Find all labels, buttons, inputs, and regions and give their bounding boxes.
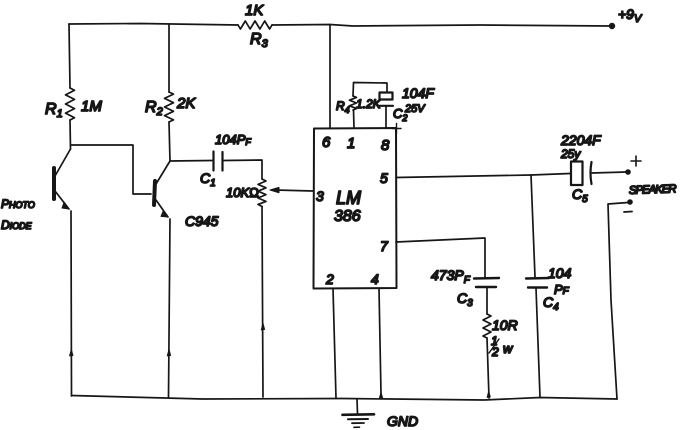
svg-text:2: 2 [325,271,334,287]
pin number 1 [347,135,355,152]
label C5 voltage 25V [560,147,581,161]
label potentiometer value 10K ohm [226,185,259,200]
svg-text:3: 3 [316,188,324,204]
pin number 5 [380,170,388,186]
transistor Q1 emitter with arrow [55,191,69,209]
wire R5 bottom to ground rail [487,338,489,398]
label +9V [618,6,643,25]
pin number 3 [316,188,324,204]
label C2 voltage 25V [404,103,426,115]
label R4 designator [336,99,350,115]
svg-text:25y: 25y [560,147,581,161]
label R5 value 10R [492,317,518,333]
svg-text:C945: C945 [185,213,219,229]
wire node A to Q2 base [71,145,152,194]
polarity minus mark speaker [624,211,632,214]
pin number 7 [380,238,389,254]
ground symbol [343,399,375,427]
svg-text:104: 104 [548,265,572,281]
label SPEAKER [629,183,677,197]
node +9V terminal dot [609,23,615,29]
wire pin 2 to ground rail [333,289,336,399]
capacitor C1 [214,152,223,171]
wire pin 1 lead up to R4 [353,110,356,128]
svg-text:1.2K: 1.2K [356,97,382,111]
svg-text:w: w [503,341,514,356]
capacitor C5 right plate [591,162,592,184]
svg-text:7: 7 [380,238,389,254]
svg-text:2204F: 2204F [560,132,602,148]
capacitor C3 top plate [474,277,499,280]
label C3 designator [457,290,473,309]
label R2 value 2K [176,95,196,112]
svg-text:DIODE: DIODE [1,218,33,232]
svg-text:1K: 1K [245,2,264,19]
label C3 value 473Pf [431,267,471,286]
wire Q1 emitter to ground rail [70,211,73,396]
capacitor C4 top plate [526,277,549,280]
wire pin 5 junction to C4 top [531,175,535,277]
label C1 designator [200,170,216,189]
junction tick on R5 wire [487,391,490,398]
wire speaker minus to ground rail [608,203,628,400]
resistor R5 10R [483,314,491,338]
junction tick on pin 4 wire [379,392,383,399]
node speaker minus terminal dot [627,199,633,205]
wire R2 bottom lead to node B [169,122,170,161]
svg-text:SPEAKER: SPEAKER [629,183,677,197]
wire C5 to speaker plus terminal [592,172,626,173]
wire C2 bottom to pin 8 [385,106,387,128]
svg-text:2K: 2K [176,95,196,112]
label R2 designator [145,99,163,118]
resistor R4 [350,96,357,110]
svg-text:1: 1 [347,135,355,152]
resistor R2 [165,92,174,122]
pin number 6 [322,134,331,151]
capacitor C2 electrolytic top plate [380,93,393,100]
label R5 power half watt [489,334,514,359]
svg-text:PHOTO: PHOTO [1,197,35,211]
label C2 value 104F [402,85,435,101]
label PHOTO [1,197,35,211]
capacitor C2 bottom plate [379,105,393,107]
label C5 value 220uF [560,132,602,148]
pin number 8 [381,137,390,154]
label C4 value 104 [548,265,572,281]
label C2 designator [393,106,407,123]
svg-text:8: 8 [381,137,390,154]
wire R2 top lead from rail [168,25,170,92]
label U1 name LM [336,188,361,208]
svg-text:1M: 1M [81,98,102,115]
svg-text:GND: GND [387,413,418,429]
transistor Q2 emitter with arrow [156,200,168,217]
node speaker plus terminal dot [625,169,631,175]
wire top +9V rail left segment [69,24,238,26]
svg-text:6: 6 [322,134,331,151]
label R4 value 1.2K [356,97,382,111]
resistor R3 [238,21,272,29]
wire pin 5 to C5 [396,174,570,178]
wire R1 top lead from rail [69,24,70,88]
svg-text:25V: 25V [404,103,426,115]
resistor R1 [66,88,75,120]
capacitor C3 bottom plate [476,286,496,288]
wire ground rail [72,396,618,401]
pin number 4 [371,271,379,287]
label Q2 part number C945 [185,213,219,229]
wire pin 6 to +9V rail [329,25,331,129]
wire C3 bottom to resistor R5 [486,288,488,315]
wire node B to C1 [170,160,212,163]
junction tick on Q1 emitter wire [70,349,74,356]
label C4 designator [543,294,559,313]
svg-text:386: 386 [334,208,361,225]
svg-text:10KΩ: 10KΩ [226,185,259,200]
wire potentiometer bottom to ground rail [262,207,263,398]
svg-text:10R: 10R [492,317,518,333]
wire C4 bottom to ground rail [536,288,540,397]
pin number 2 [325,271,334,287]
junction tick on potentiometer wire [261,323,265,330]
transistor Q1 photo transistor base bar [52,168,56,199]
svg-text:2: 2 [491,345,499,359]
capacitor C4 bottom plate [528,286,547,288]
junction tick on Q2 emitter wire [167,349,171,356]
label R3 value 1K [245,2,264,19]
wire C1 to potentiometer top [224,160,262,179]
label DIODE [1,218,33,232]
svg-text:5: 5 [380,170,388,186]
label C4 value Pf [554,282,570,297]
wire Q2 emitter to ground rail [169,219,171,397]
transistor Q2 collector [156,161,170,184]
transistor Q2 base bar [154,181,155,205]
wire R1 bottom lead to node A [69,120,72,149]
polarity plus mark speaker [631,156,641,166]
potentiometer VR1 10K body [258,179,266,207]
transistor Q1 collector [55,149,71,176]
wire pin 4 to ground rail [379,289,381,395]
label R3 designator [250,31,269,50]
label C1 value 104Pf [215,132,251,147]
label GND [387,413,418,429]
wire top +9V rail right segment [272,25,611,27]
label C5 designator [572,186,588,205]
op-amp U1 LM386 body [314,128,397,289]
label R1 designator [45,101,63,120]
capacitor C5 electrolytic left plate [571,162,583,186]
label R1 value 1M [81,98,102,115]
wire R4 top to C2 top [353,83,387,97]
label U1 name 386 [334,208,361,225]
svg-text:104F: 104F [402,85,435,101]
svg-text:LM: LM [336,188,361,208]
wire pin 3 to potentiometer wiper with arrow [270,187,313,192]
wire pin 7 to C3 top [396,238,485,277]
polarity plus mark near pin 8 [392,124,401,134]
svg-text:4: 4 [371,271,379,287]
